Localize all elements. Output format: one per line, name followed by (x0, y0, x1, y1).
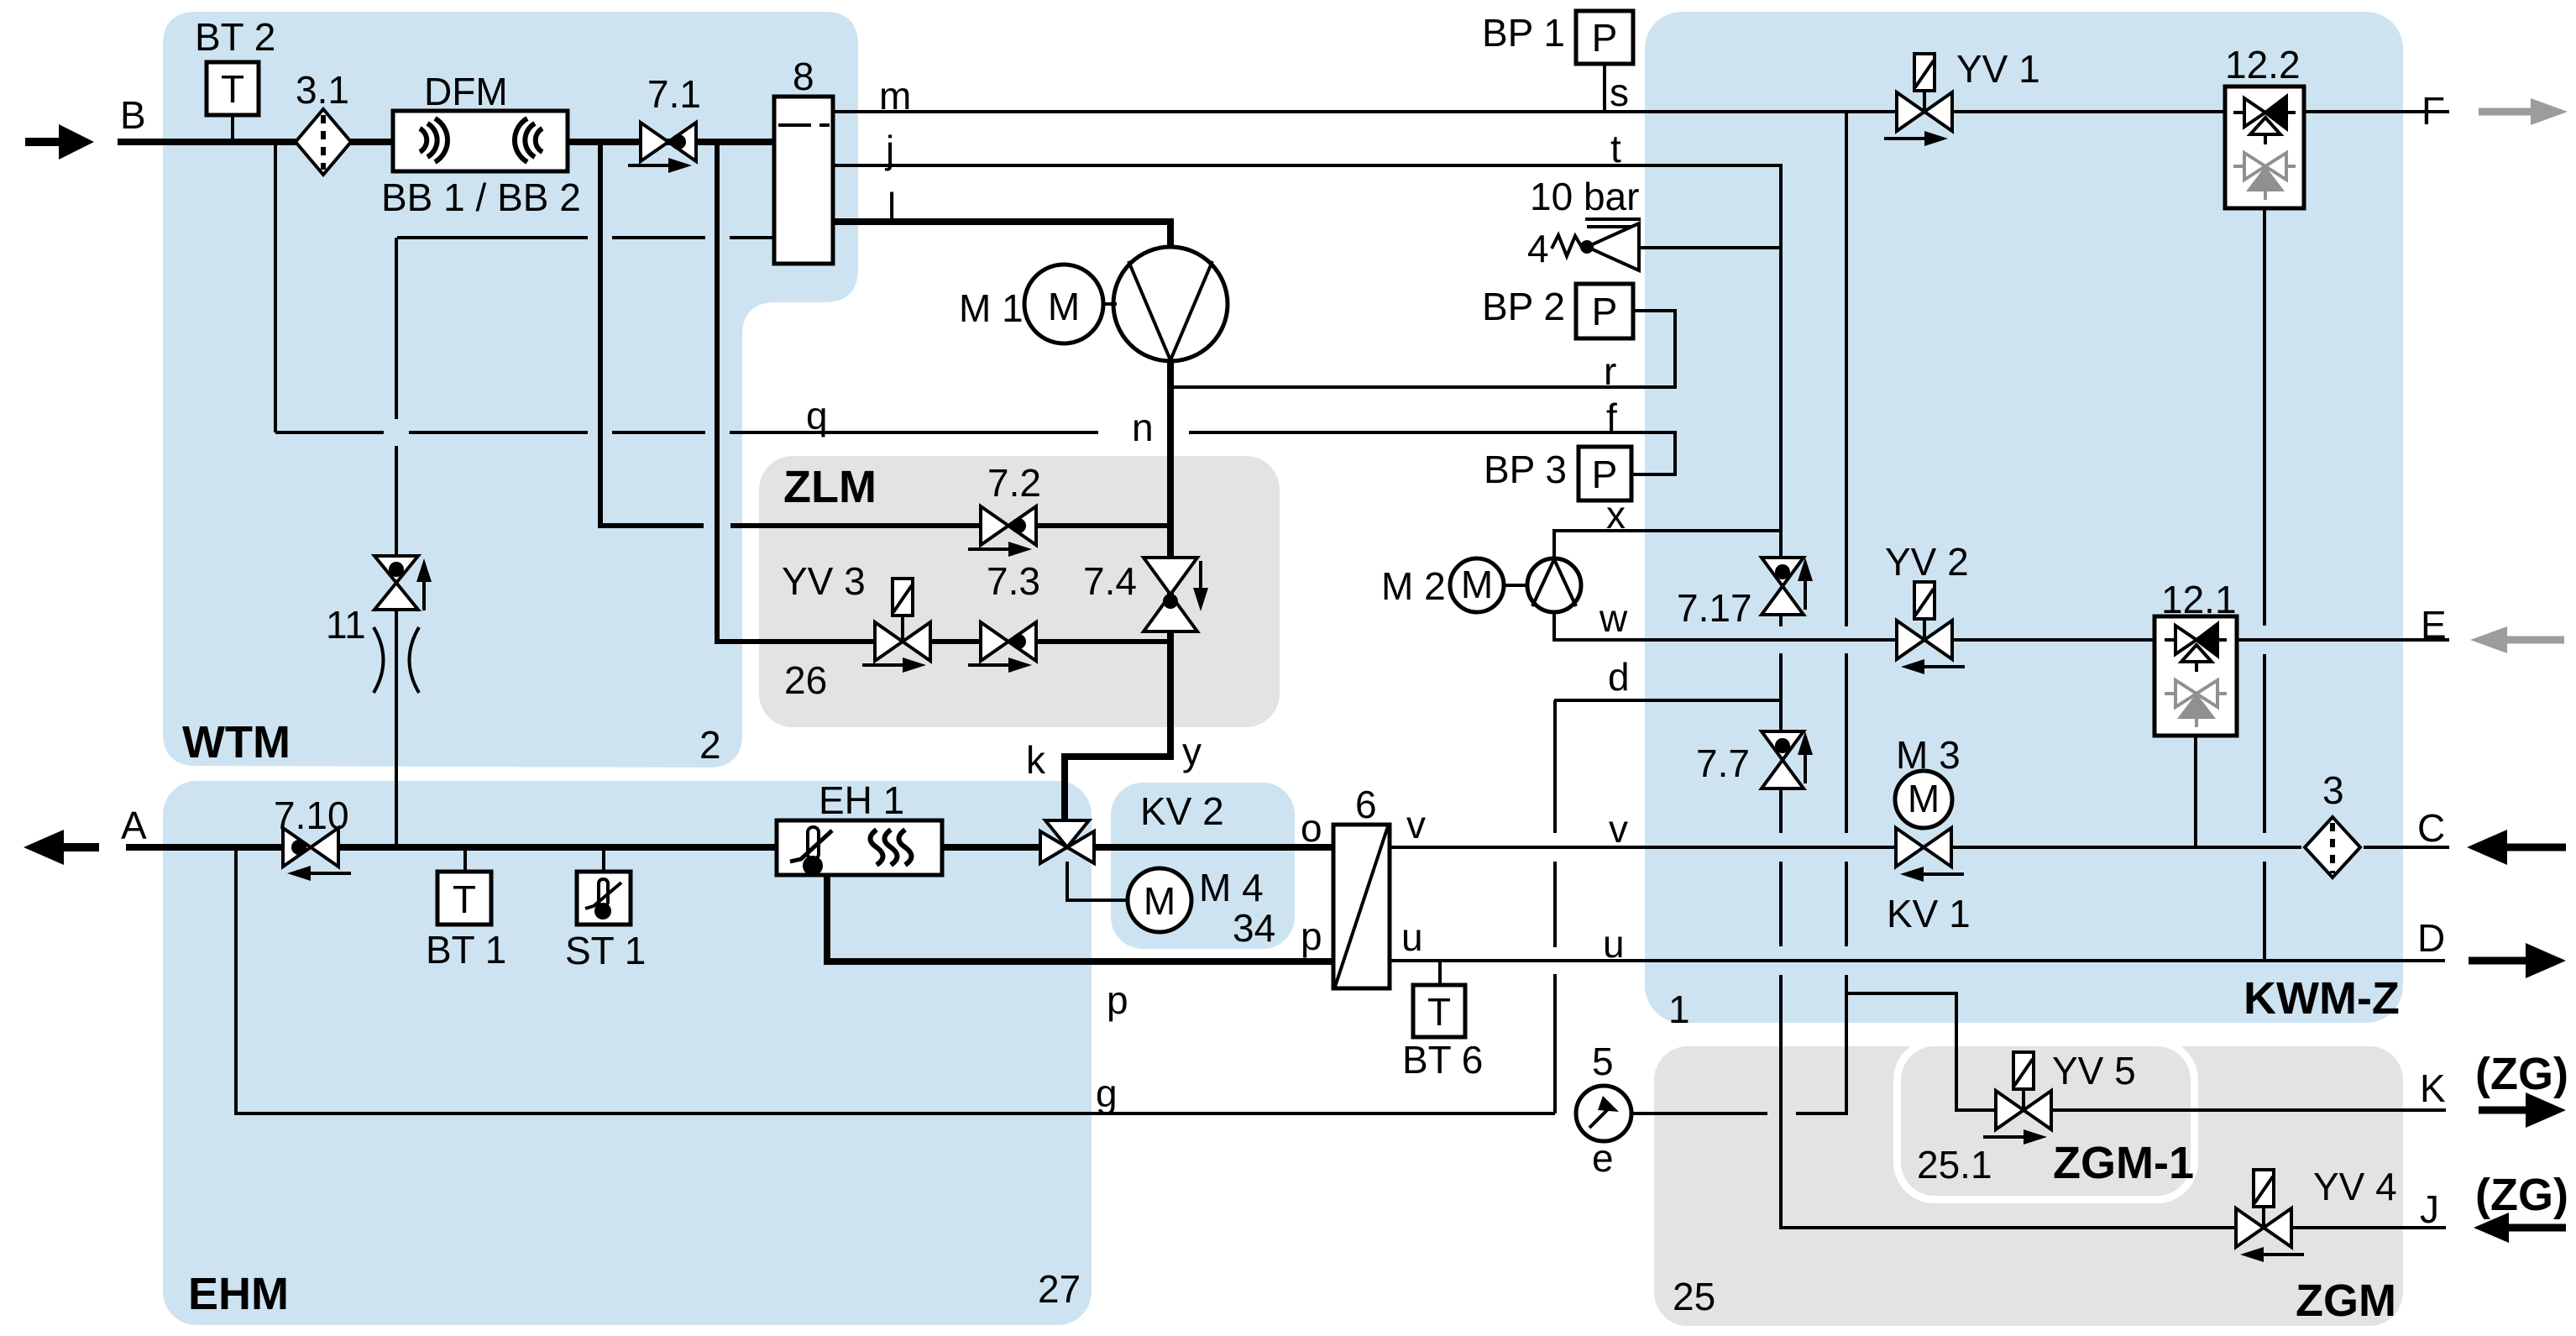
separator 6 (1333, 825, 1390, 988)
svg-text:6: 6 (1355, 783, 1377, 826)
motor M4 (1067, 862, 1191, 932)
wire BT1 stem (463, 847, 467, 872)
svg-text:ST 1: ST 1 (565, 929, 646, 972)
relief valve 4 (1552, 219, 1641, 270)
arrow outlet A black left (24, 830, 64, 865)
svg-text:11: 11 (326, 603, 366, 647)
svg-text:l: l (887, 185, 896, 228)
module ZGM background (1654, 1046, 2403, 1326)
arrow outlet K black right (2479, 1107, 2527, 1114)
valve 7.2 (968, 506, 1036, 557)
wire YV3 branch riser and line (717, 142, 875, 642)
svg-text:8: 8 (793, 55, 814, 98)
heater EH1 (777, 820, 942, 876)
arrow inlet E gray left (2470, 626, 2507, 653)
svg-text:C: C (2417, 806, 2445, 850)
svg-text:v: v (1609, 807, 1628, 851)
wire s vertical 2199 with gaps (1845, 112, 1848, 626)
wire g riser and g line (236, 847, 1555, 1113)
wire e line from gauge to corner (1632, 1112, 1767, 1115)
svg-text:A: A (121, 804, 147, 847)
svg-text:3.1: 3.1 (296, 68, 349, 112)
valve KV2 3-way (1040, 820, 1094, 863)
svg-text:g: g (1096, 1071, 1118, 1115)
svg-text:E: E (2421, 603, 2447, 647)
wire 12.2 drop line with gaps at E,C (2263, 208, 2266, 626)
svg-text:7.3: 7.3 (987, 559, 1040, 603)
pressure sensor BP3 (1579, 447, 1631, 500)
arrow inlet C black left (2467, 830, 2507, 865)
gauge 5 (1576, 1086, 1631, 1141)
separator 8 (774, 97, 833, 264)
valve 7.1 (628, 123, 696, 173)
svg-text:34: 34 (1233, 906, 1275, 950)
svg-text:BT 1: BT 1 (426, 928, 506, 972)
svg-text:7.4: 7.4 (1083, 559, 1137, 603)
wire l (box8 to pump M1) (833, 222, 1170, 249)
wire valve11 branch vertical (395, 238, 398, 419)
wire K line right of YV5 (2051, 1108, 2446, 1112)
svg-text:KV 1: KV 1 (1887, 892, 1971, 935)
module EHM background (163, 781, 1092, 1325)
pressure sensor BP1 (1576, 11, 1633, 64)
svg-text:25.1: 25.1 (1917, 1143, 1992, 1187)
valve YV4 (2236, 1170, 2304, 1262)
wire relief valve 4 to vertical (1636, 246, 1781, 249)
wire x line and M2 top stem (1554, 531, 1781, 558)
svg-text:M: M (1144, 879, 1175, 923)
svg-text:25: 25 (1673, 1275, 1715, 1318)
svg-text:p: p (1107, 978, 1128, 1022)
svg-text:YV 4: YV 4 (2313, 1165, 2397, 1208)
svg-text:J: J (2420, 1187, 2439, 1231)
svg-text:T: T (453, 878, 476, 921)
arrow inlet J black left (2474, 1213, 2509, 1243)
svg-text:P: P (1592, 453, 1618, 496)
valve 7.7 (1762, 731, 1813, 789)
svg-text:7.1: 7.1 (647, 72, 701, 116)
svg-text:EHM: EHM (188, 1269, 289, 1319)
sensor BT2 (207, 62, 259, 142)
svg-text:12.2: 12.2 (2225, 43, 2301, 86)
wire 7.17 below to d corner with gap at w (1779, 616, 1783, 626)
svg-text:BB 1 / BB 2: BB 1 / BB 2 (381, 176, 581, 219)
svg-text:(ZG): (ZG) (2475, 1049, 2568, 1099)
svg-text:s: s (1610, 71, 1629, 114)
valve YV3 (862, 579, 930, 673)
svg-text:1: 1 (1668, 988, 1690, 1031)
valve KV1 (1896, 828, 1964, 882)
wire B main line (118, 139, 774, 145)
svg-text:u: u (1603, 922, 1625, 966)
filter 3 (2305, 817, 2360, 878)
svg-text:o: o (1301, 806, 1322, 850)
svg-text:M 2: M 2 (1381, 564, 1446, 608)
module ZGM-1 background (1901, 1046, 2191, 1196)
svg-text:YV 2: YV 2 (1885, 540, 1969, 584)
flex symbol below valve 11 (374, 627, 419, 693)
filter 3.1 (296, 109, 351, 175)
wire o (KV2 to separator 6) (1094, 844, 1333, 851)
svg-text:BT 6: BT 6 (1402, 1038, 1483, 1082)
valve 11 (374, 556, 432, 610)
svg-text:d: d (1608, 655, 1630, 699)
svg-text:f: f (1606, 396, 1617, 439)
svg-text:T: T (221, 67, 244, 111)
svg-text:4: 4 (1527, 227, 1549, 270)
svg-text:M: M (1048, 285, 1080, 328)
arrow outlet D black right (2469, 957, 2527, 965)
pump M1 (1113, 247, 1228, 361)
svg-text:M 1: M 1 (959, 286, 1024, 330)
wire q riser from B line (274, 142, 277, 432)
svg-text:2: 2 (699, 723, 721, 767)
wire 7.7 down to J corner, gaps at v,u (1779, 789, 1783, 833)
svg-text:BT 2: BT 2 (195, 15, 275, 59)
svg-text:ZGM-1: ZGM-1 (2053, 1138, 2194, 1188)
svg-text:KWM-Z: KWM-Z (2244, 973, 2400, 1024)
motor M3 (1895, 771, 1952, 830)
wire d corner to 2121 (1554, 699, 1781, 702)
wire u (separator to D) (1390, 959, 2445, 962)
motor M1 (1024, 265, 1117, 343)
svg-text:e: e (1592, 1136, 1614, 1180)
valve YV5 (1983, 1052, 2051, 1145)
svg-text:YV 1: YV 1 (1956, 47, 2040, 91)
svg-text:j: j (884, 128, 894, 171)
sensor BT6 (1413, 985, 1465, 1037)
svg-text:KV 2: KV 2 (1140, 789, 1224, 833)
wire r line (1170, 311, 1675, 387)
motor M2 (1450, 558, 1527, 612)
sensor ST1 (577, 872, 631, 925)
svg-text:7.7: 7.7 (1696, 741, 1750, 785)
svg-text:BP 1: BP 1 (1482, 11, 1565, 55)
svg-text:M 4: M 4 (1199, 866, 1264, 909)
svg-text:BP 3: BP 3 (1484, 448, 1567, 491)
svg-text:P: P (1592, 290, 1618, 333)
svg-text:EH 1: EH 1 (819, 778, 904, 822)
svg-text:ZGM: ZGM (2296, 1276, 2396, 1326)
svg-text:w: w (1599, 596, 1628, 640)
svg-text:M 3: M 3 (1896, 733, 1961, 777)
pump M2 (1527, 558, 1581, 612)
module ZLM background (759, 456, 1280, 727)
svg-text:DFM: DFM (424, 70, 508, 113)
wire 12.1 drop to v (2194, 736, 2197, 847)
svg-text:m: m (879, 74, 911, 118)
svg-text:P: P (1592, 16, 1618, 60)
module KWM-Z background (1645, 12, 2403, 1023)
valve YV1 (1884, 54, 1952, 146)
svg-text:u: u (1401, 915, 1423, 959)
wire m (box8 to F) (833, 110, 1897, 113)
wire ST1 stem (602, 847, 605, 872)
svg-text:12.1: 12.1 (2161, 578, 2237, 621)
svg-text:BP 2: BP 2 (1482, 285, 1565, 328)
svg-text:26: 26 (784, 658, 827, 702)
wire A line (126, 844, 283, 851)
sensor BT1 (437, 872, 491, 925)
module WTM background (163, 12, 858, 768)
svg-text:B: B (120, 93, 146, 137)
wire J line right of YV4 (2291, 1226, 2446, 1229)
wire w line (1554, 612, 1896, 640)
svg-text:7.10: 7.10 (274, 794, 349, 837)
svg-text:M: M (1908, 777, 1940, 820)
wire s to 12.2 (1952, 110, 2225, 113)
svg-text:r: r (1604, 349, 1616, 393)
flow meter DFM / BB1 BB2 (393, 111, 568, 171)
wire BP1 stem (1603, 64, 1606, 112)
arrow inlet B (25, 138, 60, 146)
wire v (separator to C) (1390, 846, 1896, 849)
svg-text:t: t (1610, 127, 1621, 170)
svg-text:q: q (806, 394, 828, 437)
svg-text:x: x (1606, 493, 1626, 537)
svg-text:WTM: WTM (182, 717, 291, 768)
wire n vertical (pump M1 down to k corner) (1065, 359, 1170, 822)
svg-text:7.17: 7.17 (1677, 586, 1752, 630)
wire box8 side line y283 (397, 236, 588, 239)
valve YV2 (1897, 582, 1965, 674)
svg-text:YV 3: YV 3 (782, 559, 866, 603)
svg-text:y: y (1182, 730, 1202, 773)
svg-text:D: D (2417, 916, 2445, 960)
wire p (EH1 down and to separator 6) (827, 873, 1333, 961)
check valve block 12.2 (2225, 86, 2304, 208)
svg-text:7.2: 7.2 (987, 461, 1041, 505)
wire K jog from s vertical (1846, 993, 1996, 1110)
arrow outlet F gray (2479, 108, 2531, 116)
pressure sensor BP2 (1576, 284, 1633, 338)
valve 7.17 (1762, 558, 1813, 615)
svg-text:p: p (1301, 914, 1322, 958)
valve 7.4 (1144, 558, 1208, 631)
svg-text:k: k (1026, 738, 1046, 782)
svg-text:ZLM: ZLM (783, 462, 877, 512)
svg-text:27: 27 (1038, 1267, 1081, 1311)
check valve block 12.1 (2155, 616, 2237, 736)
svg-text:5: 5 (1592, 1040, 1614, 1083)
svg-text:(ZG): (ZG) (2475, 1170, 2568, 1220)
wire 12.2 to F (2304, 110, 2449, 113)
svg-text:v: v (1406, 803, 1426, 846)
svg-text:T: T (1427, 990, 1451, 1034)
svg-text:F: F (2422, 89, 2445, 133)
svg-text:M: M (1461, 563, 1493, 606)
wire d vertical from g line with gaps (1553, 974, 1557, 1113)
svg-text:YV 5: YV 5 (2052, 1049, 2136, 1092)
wire q/f line segments (275, 431, 384, 434)
wire 7.2 branch riser and line (600, 142, 704, 526)
valve 7.10 (283, 828, 351, 881)
wire j/t (833, 165, 1781, 558)
svg-text:n: n (1132, 406, 1154, 449)
svg-text:10 bar: 10 bar (1530, 175, 1639, 218)
valve 7.3 (968, 622, 1036, 673)
svg-text:3: 3 (2322, 768, 2344, 812)
wire BT6 stem (1438, 961, 1442, 985)
svg-text:K: K (2420, 1066, 2446, 1110)
module KV2 background (1111, 783, 1295, 949)
